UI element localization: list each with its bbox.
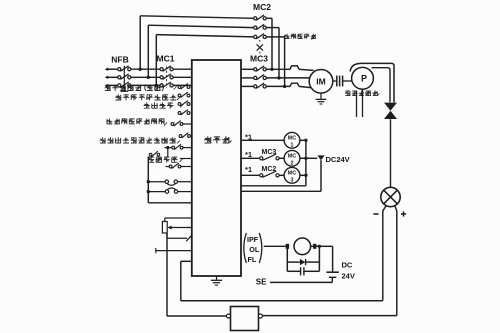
junction dots motor bus bbox=[270, 68, 286, 89]
switch STF bbox=[178, 84, 190, 89]
label DC 24V bbox=[342, 261, 355, 281]
svg-text:IPF: IPF bbox=[247, 235, 259, 244]
svg-text:NFB: NFB bbox=[111, 55, 128, 65]
label power source switch bbox=[115, 94, 176, 100]
switch interlock a bbox=[178, 101, 190, 106]
contactor MC3 (inverter output) bbox=[250, 54, 268, 89]
wire NFB to MC1 with taps bbox=[131, 69, 160, 85]
wire valve to transmitter bbox=[390, 119, 392, 187]
label inverter bbox=[204, 136, 229, 143]
wire MC1 to inverter R/S/T bbox=[173, 69, 192, 85]
label HMI pressure parameter set bbox=[100, 137, 176, 143]
wire outputs to relay bbox=[264, 245, 289, 248]
pump suction pipe bbox=[357, 89, 363, 117]
switch speed signal bbox=[149, 151, 192, 158]
transmitter polarity labels bbox=[373, 211, 406, 216]
svg-text:*1: *1 bbox=[245, 165, 252, 174]
coil MC2 bbox=[284, 150, 300, 166]
inverter box bbox=[192, 60, 241, 276]
label OL bbox=[249, 245, 260, 254]
svg-text:MC3: MC3 bbox=[250, 54, 268, 64]
wire transmitter minus to analog loop bbox=[181, 206, 386, 301]
input feeder L1/L2/L3 bbox=[105, 68, 118, 88]
contactor MC2 (mains bypass) bbox=[253, 2, 271, 39]
svg-text:1: 1 bbox=[291, 142, 294, 148]
svg-text:IM: IM bbox=[316, 77, 325, 87]
label IPF bbox=[247, 235, 259, 244]
svg-text:MC2: MC2 bbox=[262, 166, 277, 173]
contactor MC1 bbox=[157, 54, 175, 89]
label SE and wire bbox=[256, 278, 332, 287]
pressure transmitter gauge bbox=[381, 187, 400, 206]
motor IM bbox=[309, 70, 333, 94]
label external thermal relay bbox=[285, 34, 316, 40]
wire supply box to pot rail bbox=[167, 233, 227, 316]
wire ai common tick bbox=[156, 248, 192, 253]
wire pot low with break slash bbox=[167, 235, 192, 241]
note *1 row3 bbox=[245, 165, 252, 174]
ground (motor) bbox=[316, 93, 327, 104]
alarm relay bbox=[286, 238, 333, 255]
capacitor bbox=[287, 267, 319, 275]
svg-text:3: 3 bbox=[291, 177, 294, 183]
svg-text:SE: SE bbox=[256, 278, 267, 287]
valve bbox=[384, 103, 397, 119]
switch interlock b bbox=[178, 110, 190, 115]
svg-text:P: P bbox=[361, 74, 367, 84]
switch param set bbox=[179, 133, 190, 138]
note *1 row1 bbox=[245, 133, 252, 142]
svg-text:MC: MC bbox=[288, 136, 296, 142]
switch source select bbox=[178, 92, 190, 97]
coil return bus bbox=[241, 139, 308, 186]
wire transmitter plus to supply loop bbox=[262, 206, 397, 316]
svg-text:DC24V: DC24V bbox=[326, 155, 350, 164]
svg-text:MC2: MC2 bbox=[253, 2, 271, 12]
svg-text:OL: OL bbox=[249, 245, 260, 254]
wire to coil MC1 bbox=[241, 139, 284, 141]
output group brace bbox=[244, 233, 262, 263]
DC24V coil supply bbox=[241, 155, 350, 191]
pushbutton pair b bbox=[148, 188, 192, 193]
wire common to SD bbox=[148, 202, 192, 204]
NC contact MC2 on row3 bbox=[241, 171, 284, 177]
label speed signal bbox=[148, 157, 177, 163]
battery DC 24V bbox=[326, 246, 338, 282]
coil MC3 bbox=[284, 167, 300, 183]
label ext thermal relay reset bbox=[107, 118, 165, 124]
svg-text:MC3: MC3 bbox=[262, 149, 277, 156]
surge diode bbox=[287, 246, 319, 271]
label MC3 contact bbox=[262, 149, 277, 156]
switch reset bbox=[171, 121, 192, 126]
transmitter supply box bbox=[227, 307, 263, 331]
ground (inverter) bbox=[211, 276, 222, 285]
wire motor feed with thermal elements bbox=[266, 66, 313, 88]
breaker NFB bbox=[111, 55, 131, 92]
mechanical interlock X bbox=[257, 40, 263, 55]
switch aux with tap bbox=[165, 144, 192, 157]
bypass drops MC2 to motor bus bbox=[266, 18, 284, 86]
svg-text:*1: *1 bbox=[245, 133, 252, 142]
label run interlock bbox=[144, 102, 174, 108]
label MC2 contact bbox=[262, 166, 277, 173]
bypass risers to MC2 bbox=[140, 16, 254, 86]
wire inverter U/V/W to MC3 bbox=[241, 69, 254, 86]
pushbutton pair a bbox=[148, 180, 192, 185]
label FL bbox=[248, 255, 257, 264]
potentiometer 10k bbox=[162, 218, 191, 238]
shaft coupling bbox=[333, 76, 352, 87]
svg-text:24V: 24V bbox=[342, 272, 355, 281]
svg-text:MC: MC bbox=[288, 171, 296, 177]
svg-text:MC1: MC1 bbox=[157, 54, 175, 64]
coil MC1 bbox=[284, 132, 300, 148]
svg-text:FL: FL bbox=[248, 255, 257, 264]
svg-text:MC: MC bbox=[288, 154, 296, 160]
label tick marks bbox=[164, 87, 232, 163]
label inverter start (fwd) bbox=[105, 85, 164, 91]
note *1 row2 bbox=[245, 150, 252, 159]
switch aux2 bbox=[166, 163, 192, 168]
svg-text:2: 2 bbox=[291, 160, 294, 166]
label pressure sensor bbox=[345, 91, 380, 96]
junction taps to bypass bbox=[139, 68, 159, 88]
left common bus bbox=[147, 157, 150, 203]
pump P bbox=[350, 63, 394, 102]
svg-text:DC: DC bbox=[342, 261, 353, 270]
svg-text:*1: *1 bbox=[245, 150, 252, 159]
NC contact MC3 on row2 bbox=[241, 154, 284, 160]
